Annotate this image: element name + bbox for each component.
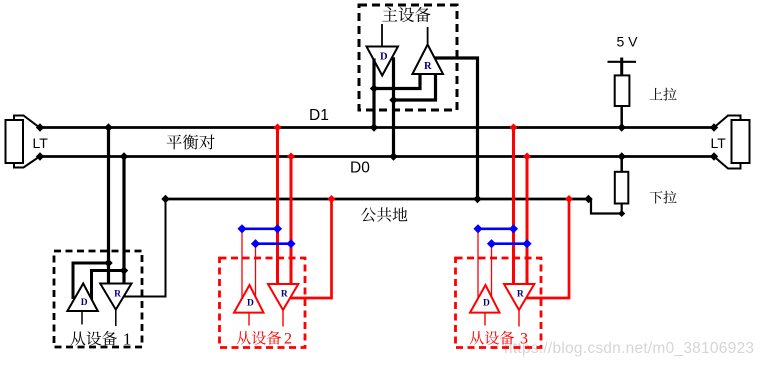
wire LT right top lead [714, 116, 741, 128]
wire 5V to pull-up resistor [620, 58, 623, 76]
wire D0 to pull-down resistor [620, 157, 623, 173]
junction slave1 drop1 [104, 259, 112, 267]
wire bus line D1 [40, 126, 714, 129]
wire slave3 thin lead to D right [491, 244, 493, 300]
op-amp driver D slave2 [234, 285, 264, 313]
wire pull-down resistor to ground [591, 199, 622, 214]
op-amp receiver R slave1 [100, 284, 131, 310]
junction stub lower left slave2 [251, 239, 260, 248]
wire slave3 R stem [518, 310, 520, 327]
wire master R antenna [427, 27, 429, 46]
junction stub upper left slave3 [473, 224, 482, 233]
svg-text:5 V: 5 V [617, 34, 639, 50]
wire slave2 stub link upper (blue) [242, 228, 278, 231]
wire pull-up resistor to D1 [620, 106, 623, 128]
junction pull-down bottom [618, 210, 625, 217]
wire master D output to D0 [392, 57, 395, 156]
svg-text:D: D [81, 298, 88, 308]
junction stub lower right slave3 [522, 239, 531, 248]
junction slave2 on D0 [287, 153, 295, 161]
wire slave3 drop from D1 [512, 128, 515, 285]
label 公共地 (common ground) [361, 208, 376, 222]
label 上拉 (pull-up) [650, 88, 663, 100]
wire slave2 D stem [248, 313, 250, 326]
resistor pull-down [615, 172, 629, 204]
wire slave2 R stem [282, 310, 284, 327]
wire master net to R left input [374, 74, 420, 89]
junction on D1 at right LT [710, 123, 718, 131]
svg-text:LT: LT [711, 135, 727, 151]
label 从设备 2 [237, 331, 251, 345]
junction slave2 on D1 [274, 124, 282, 132]
wire LT left bottom lead [14, 157, 40, 168]
wire bus line D0 [40, 155, 714, 158]
wire slave3 R output to ground [527, 199, 570, 298]
svg-text:D0: D0 [350, 160, 370, 177]
junction stub lower right slave2 [286, 239, 295, 248]
wire slave2 stub link lower (blue) [256, 242, 292, 245]
wire master D antenna [381, 24, 383, 47]
master device dashed box [359, 5, 457, 110]
junction slave3 on D0 [523, 153, 531, 161]
op-amp receiver R master [412, 45, 443, 75]
wire slave2 thin lead to D left [241, 229, 243, 299]
svg-text:R: R [424, 61, 432, 72]
label 从设备 1 [71, 331, 86, 345]
wire slave1 drop from D0 [122, 157, 125, 284]
op-amp driver D master [367, 47, 399, 76]
wire slave3 drop from D0 [526, 157, 529, 285]
junction master D1 net [370, 84, 378, 92]
svg-text:2: 2 [284, 331, 292, 348]
svg-text:LT: LT [33, 135, 49, 151]
wire slave1 D stem [81, 311, 83, 325]
junction slave2 ground [328, 195, 336, 203]
svg-text:R: R [114, 289, 121, 299]
junction ground start [161, 195, 169, 203]
wire slave2 drop from D0 [290, 157, 293, 285]
op-amp driver D slave1 [67, 284, 97, 312]
junction pull-down on D0 [618, 152, 626, 160]
label 从设备 3 [470, 331, 484, 345]
power rail 5V bar [608, 61, 637, 63]
junction stub lower left slave3 [487, 239, 496, 248]
junction stub upper right slave3 [509, 224, 518, 233]
junction on D1 at left LT [36, 123, 44, 131]
op-amp receiver R slave3 [504, 284, 534, 310]
slave 3 dashed box [456, 258, 542, 348]
svg-text:D1: D1 [309, 107, 329, 124]
svg-text:R: R [517, 290, 524, 300]
wire common ground bus [166, 198, 592, 201]
slave 2 dashed box [220, 258, 306, 348]
wire slave2 drop from D1 [276, 128, 279, 285]
svg-text:3: 3 [520, 331, 528, 348]
resistor pull-up [615, 75, 630, 106]
junction master drop on D1 [370, 123, 378, 131]
junction slave1 drop2 [120, 266, 128, 274]
svg-text:D: D [247, 298, 254, 308]
label 主设备 (master device) [382, 7, 397, 21]
resistor LT left [6, 120, 24, 163]
op-amp receiver R slave2 [268, 284, 298, 310]
wire slave3 stub link lower (blue) [492, 242, 528, 245]
junction slave3 ground [565, 195, 573, 203]
wire master D output to D1 [372, 58, 375, 127]
junction stub upper left slave2 [237, 224, 246, 233]
junction slave1 on D0 [120, 152, 128, 160]
resistor LT right [732, 120, 750, 163]
junction stub upper right slave2 [273, 224, 282, 233]
junction master ground [473, 195, 481, 203]
junction on D0 at left LT [36, 152, 44, 160]
wire slave3 stub link upper (blue) [478, 228, 514, 231]
wire master net to R right input [394, 74, 436, 100]
wire slave1 branch to D right [92, 271, 125, 300]
label 平衡对 (balanced pair) [167, 135, 182, 150]
junction slave3 on D1 [510, 124, 518, 132]
wire slave1 R stem [115, 310, 117, 326]
svg-text:D: D [380, 52, 388, 63]
wire slave3 thin lead to D left [477, 229, 479, 299]
wire slave2 thin lead to D right [255, 244, 257, 300]
wire slave2 R output to ground [291, 199, 332, 298]
wire slave1 R output to ground [124, 199, 166, 297]
wire LT right bottom lead [714, 157, 741, 169]
svg-text:R: R [281, 290, 288, 300]
label 下拉 (pull-down) [650, 191, 663, 203]
wire LT left top lead [14, 116, 40, 128]
slave 1 dashed box [54, 251, 142, 347]
junction master drop on D0 [389, 152, 397, 160]
op-amp driver D slave3 [470, 285, 500, 313]
wire slave3 D stem [484, 313, 486, 326]
junction slave1 on D1 [104, 123, 112, 131]
junction on D0 at right LT [710, 152, 718, 160]
junction master D0 net [389, 96, 397, 104]
junction pull-up on D1 [618, 123, 626, 131]
wire slave1 drop from D1 [107, 128, 110, 284]
svg-text:1: 1 [123, 329, 131, 348]
svg-text:D: D [483, 298, 490, 308]
junction ground end [584, 195, 592, 203]
wire master R output to ground [435, 58, 478, 199]
wire slave1 branch to D left [73, 263, 109, 299]
